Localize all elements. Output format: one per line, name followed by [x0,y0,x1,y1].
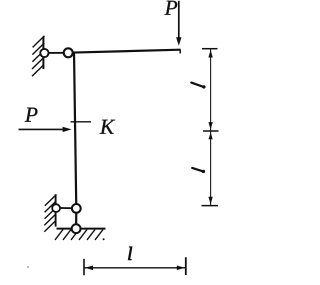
node K tick on column [71,121,92,123]
speckle dot [27,266,29,268]
pin circle on ground [72,224,81,233]
dimension arrow right [177,266,185,271]
ground hatching [55,230,103,240]
wire top link wall-to-hinge [44,52,68,54]
ground line [57,228,106,230]
dimension arrow down at bottom tick [208,197,212,205]
dimension tick bottom-right [185,257,187,275]
support wall upper-left line [42,37,44,70]
load P arrow mid left (horizontal, rightward) [19,128,64,130]
dimension arrow left [85,266,93,271]
load P arrow top right (vertical, downward) [178,1,180,39]
label K [100,120,116,134]
hinge circle top of column [64,48,73,57]
dimension line bottom horizontal [85,267,186,269]
dimension arrow up at top tick [208,50,212,58]
wire column vertical member [74,52,76,229]
label P mid left [25,108,38,122]
dimension arrow up below middle tick [209,132,213,139]
dimension line right vertical [210,49,212,206]
wire lower link wall-to-hinge [56,207,76,209]
dimension tick middle [203,130,219,132]
support wall lower-left hatching [44,195,56,232]
support wall upper-left hatching [32,36,45,76]
wire beam end stub [179,49,181,53]
dimension tick bottom [202,205,219,207]
hinge circle lower column [72,204,81,213]
label l lower segment [192,168,205,173]
ground hatch end dot [103,238,105,240]
support wall lower-left line [55,194,57,226]
pin circle at upper wall [40,49,48,57]
label P top right [164,1,177,15]
dimension arrow down above middle tick [208,122,212,130]
wire beam top horizontal member [68,50,181,53]
dimension tick bottom-left [83,259,85,276]
dimension tick top [202,48,218,50]
pin circle at lower wall [52,204,60,212]
label l bottom [128,247,132,260]
label l upper segment [191,83,205,89]
